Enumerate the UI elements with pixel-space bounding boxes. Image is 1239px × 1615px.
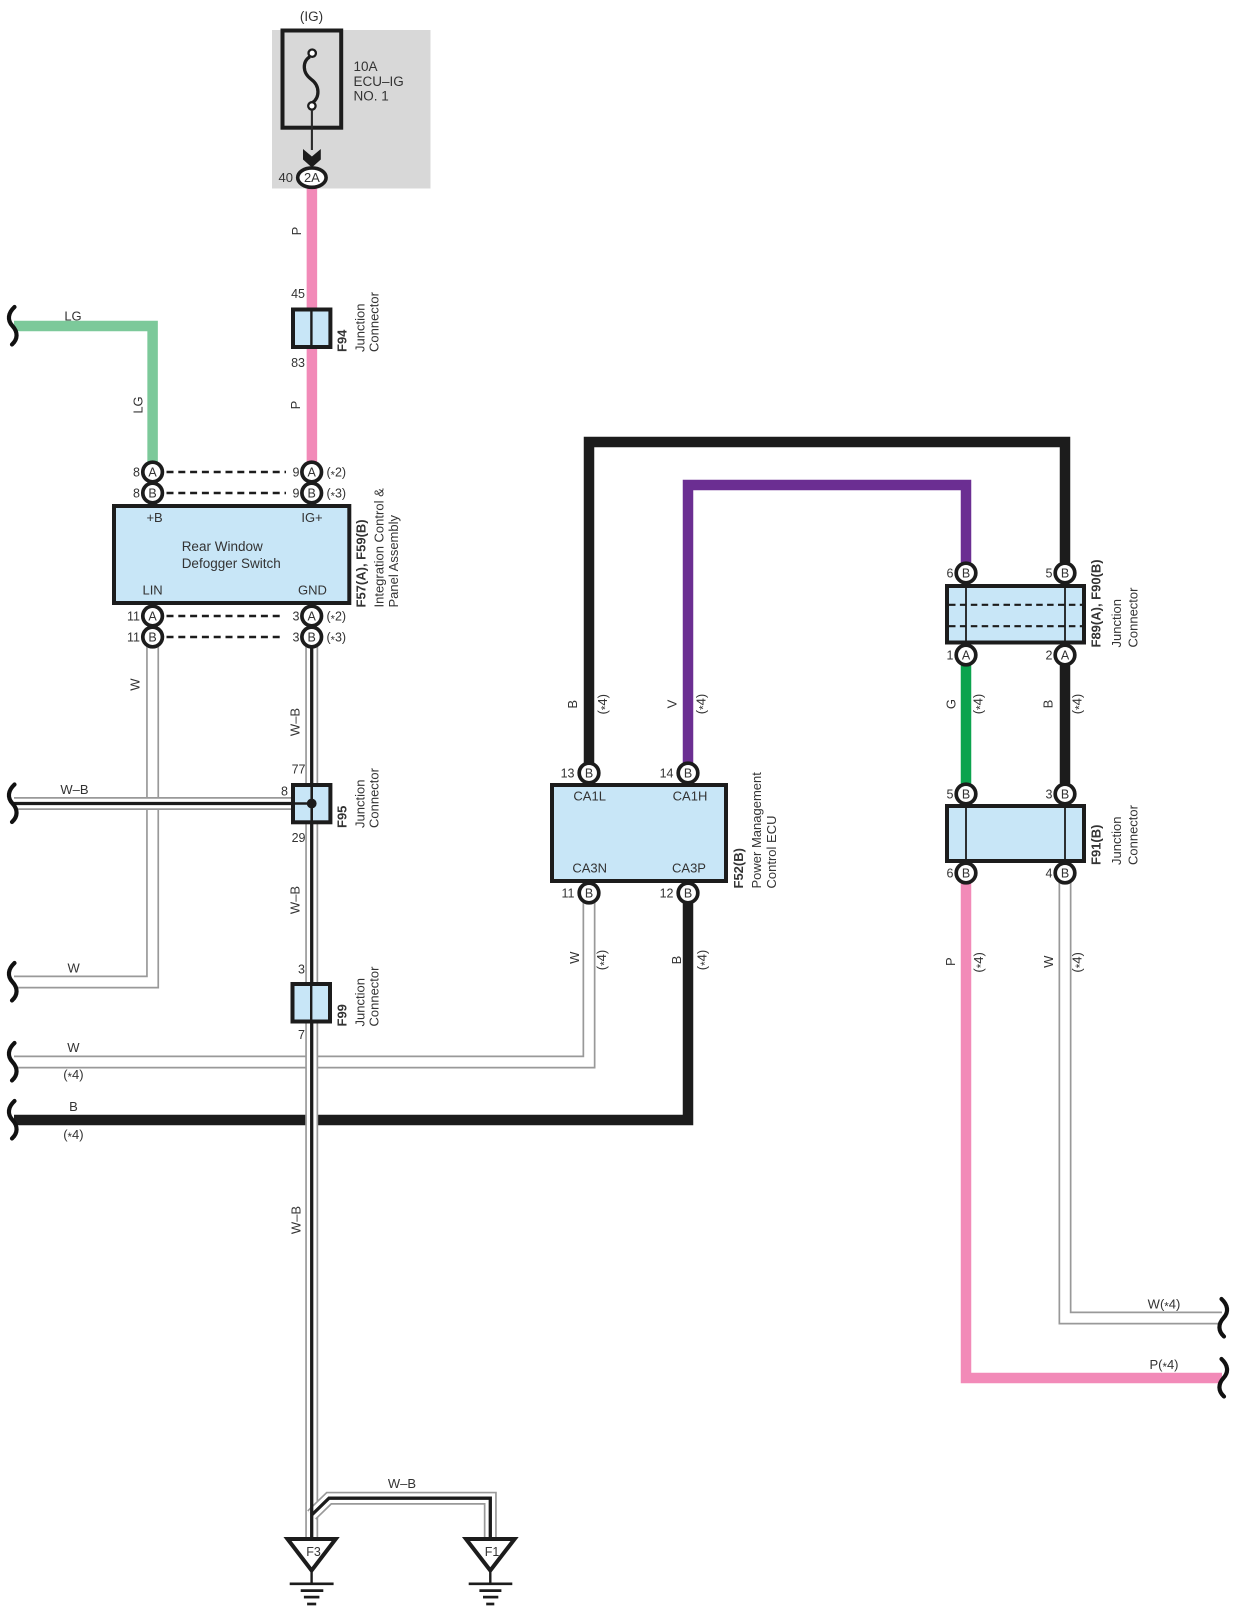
svg-text:A: A (308, 466, 317, 480)
svg-text:F52(B): F52(B) (731, 848, 746, 888)
svg-text:W–B: W–B (288, 886, 303, 914)
svg-text:6: 6 (947, 867, 954, 881)
break symbol LG wire left (9, 307, 17, 345)
pin 2(A) F89 (1055, 645, 1075, 665)
svg-text:B: B (1061, 788, 1069, 802)
svg-text:9: 9 (293, 487, 300, 501)
svg-text:11: 11 (127, 610, 140, 624)
svg-text:B: B (1061, 567, 1069, 581)
pin 12(B) ECU CA3P (678, 883, 698, 903)
svg-text:F1: F1 (485, 1545, 500, 1559)
svg-text:14: 14 (660, 767, 674, 781)
svg-text:Connector: Connector (367, 966, 382, 1027)
svg-text:+B: +B (146, 510, 162, 525)
pin 6(B) F89 (956, 563, 976, 583)
break symbol W-B wire left (9, 785, 17, 823)
pin 3(B) F91 (1055, 784, 1075, 804)
svg-text:Junction: Junction (353, 304, 368, 352)
svg-text:W–B: W–B (289, 1206, 304, 1234)
svg-text:(*4): (*4) (594, 950, 611, 970)
svg-text:W: W (128, 678, 143, 691)
arrow into terminal 2A (303, 149, 321, 168)
pin 13(B) ECU CA1L (579, 763, 599, 783)
svg-text:(*3): (*3) (327, 631, 347, 647)
svg-text:B: B (148, 487, 156, 501)
break symbol W(*4) wire right (1219, 1299, 1227, 1337)
svg-text:LIN: LIN (142, 583, 162, 598)
svg-text:40: 40 (279, 170, 293, 185)
pin 11(B) ECU CA3N (579, 883, 599, 903)
break symbol W wire left (9, 963, 17, 1001)
svg-text:B: B (585, 887, 593, 901)
svg-text:3: 3 (1046, 788, 1053, 802)
svg-text:Junction: Junction (353, 978, 368, 1026)
switch bottom pin pair dashed link row A (167, 615, 284, 618)
svg-text:1: 1 (947, 649, 954, 663)
svg-text:W(*4): W(*4) (1148, 1297, 1181, 1314)
pin 4(B) F91 (1055, 863, 1075, 883)
svg-text:Junction: Junction (353, 780, 368, 828)
svg-text:45: 45 (291, 287, 305, 301)
svg-text:6: 6 (947, 567, 954, 581)
wire W-B branch black stripe (312, 1498, 491, 1539)
svg-text:4: 4 (1046, 867, 1053, 881)
svg-text:Junction: Junction (1109, 817, 1124, 865)
svg-text:F3: F3 (306, 1545, 321, 1559)
wire P (pink) from F91 pin 6(B) down then right to break (966, 882, 1222, 1378)
svg-text:5: 5 (1046, 567, 1053, 581)
svg-text:(*4): (*4) (595, 694, 612, 714)
svg-text:W–B: W–B (60, 782, 88, 797)
svg-text:W: W (67, 961, 80, 976)
junction connector F89(A),F90(B) (947, 586, 1084, 643)
svg-text:(*4): (*4) (63, 1127, 83, 1144)
svg-text:F95: F95 (335, 806, 350, 828)
break symbol W(*4) wire left (9, 1043, 17, 1081)
ground F3 (288, 1539, 336, 1604)
svg-text:B: B (148, 631, 156, 645)
switch top pin pair dashed link row B (167, 492, 287, 495)
svg-text:P: P (289, 227, 304, 236)
pin 6(B) F91 (956, 863, 976, 883)
svg-text:10A: 10A (354, 59, 378, 74)
ground F1 (466, 1539, 515, 1604)
svg-text:(*3): (*3) (327, 487, 347, 503)
wire B loop from ECU pin 13(B) up and right to F89 pin 5(B) (589, 442, 1065, 764)
rotated wire color labels (128, 227, 1087, 1234)
svg-text:W: W (67, 1040, 80, 1055)
svg-text:29: 29 (292, 831, 306, 845)
junction connector F99 (293, 984, 331, 1022)
svg-text:B: B (69, 1099, 78, 1114)
svg-text:ECU–IG: ECU–IG (354, 74, 404, 89)
svg-text:(*4): (*4) (695, 950, 712, 970)
svg-text:CA1H: CA1H (673, 789, 708, 804)
svg-text:A: A (308, 610, 317, 624)
svg-text:2: 2 (1046, 649, 1053, 663)
pin 11(A) switch LIN (143, 606, 163, 626)
svg-text:(*4): (*4) (1070, 694, 1087, 714)
svg-text:F89(A), F90(B): F89(A), F90(B) (1089, 559, 1104, 647)
svg-text:(*4): (*4) (971, 952, 988, 972)
svg-text:8: 8 (133, 487, 140, 501)
junction connector F94 (293, 310, 330, 348)
switch bottom pin pair dashed link row B (167, 636, 284, 639)
pin 3(B) switch GND (302, 627, 322, 647)
svg-text:B: B (962, 867, 970, 881)
svg-text:8: 8 (133, 466, 140, 480)
wire W-B horizontal from left break to junction connector F95 (14, 797, 293, 810)
junction connector F91(B) (947, 806, 1084, 861)
svg-text:LG: LG (64, 309, 81, 324)
svg-text:A: A (148, 466, 157, 480)
pin 8(A) switch +B (143, 462, 163, 482)
svg-text:7: 7 (298, 1028, 305, 1042)
svg-text:9: 9 (293, 466, 300, 480)
svg-text:B: B (684, 767, 692, 781)
svg-text:Integration Control &: Integration Control & (372, 488, 387, 608)
svg-text:CA3P: CA3P (672, 861, 706, 876)
svg-text:(*4): (*4) (63, 1067, 83, 1084)
svg-text:A: A (148, 610, 157, 624)
svg-text:NO. 1: NO. 1 (354, 89, 389, 104)
svg-text:G: G (944, 699, 959, 709)
svg-text:V: V (665, 699, 680, 708)
svg-text:A: A (962, 649, 971, 663)
svg-text:B: B (1041, 700, 1056, 709)
wire W from F91 pin 4(B) down then right to break (1065, 882, 1222, 1318)
svg-text:B: B (308, 487, 316, 501)
pin 5(B) F89 (1055, 563, 1075, 583)
svg-text:13: 13 (561, 767, 575, 781)
wire B short from F89 pin 2(A) to F91 pin 3(B) (1060, 664, 1071, 785)
svg-text:8: 8 (281, 785, 288, 799)
svg-text:Connector: Connector (367, 767, 382, 828)
svg-text:77: 77 (292, 763, 306, 777)
svg-text:W: W (1041, 955, 1056, 968)
svg-text:P: P (943, 957, 958, 966)
svg-text:B: B (684, 887, 692, 901)
svg-text:IG+: IG+ (301, 510, 322, 525)
svg-text:(*2): (*2) (327, 610, 347, 626)
svg-text:Connector: Connector (1126, 804, 1141, 865)
svg-text:B: B (308, 631, 316, 645)
svg-text:11: 11 (562, 887, 575, 901)
svg-text:Junction: Junction (1109, 599, 1124, 647)
svg-text:3: 3 (293, 631, 300, 645)
svg-text:B: B (962, 788, 970, 802)
svg-text:B: B (585, 767, 593, 781)
svg-text:Connector: Connector (367, 291, 382, 352)
wire W from switch pin 11(B) down then left to break (14, 646, 153, 982)
wire G (green) from F89 pin 1(A) to F91 pin 5(B) (961, 664, 972, 785)
svg-text:3: 3 (293, 610, 300, 624)
svg-text:CA1L: CA1L (573, 789, 606, 804)
svg-text:Rear Window: Rear Window (182, 539, 263, 554)
switch top pin pair dashed link row A (167, 471, 287, 474)
svg-text:B: B (565, 700, 580, 709)
fuse block gray background (272, 30, 431, 189)
svg-text:(*4): (*4) (971, 694, 988, 714)
wire B from ECU pin 12(B) down then left to break (14, 902, 688, 1120)
svg-text:F57(A), F59(B): F57(A), F59(B) (354, 519, 369, 607)
svg-text:B: B (669, 956, 684, 965)
svg-text:5: 5 (947, 788, 954, 802)
terminal oval 2A (298, 168, 326, 187)
svg-text:(*4): (*4) (694, 694, 711, 714)
pin 9(B) switch IG+ (302, 483, 322, 503)
Rear Window Defogger Switch box F57(A),F59(B) (114, 506, 349, 603)
svg-text:F91(B): F91(B) (1089, 825, 1104, 865)
svg-text:W–B: W–B (288, 708, 303, 736)
svg-text:(*2): (*2) (327, 466, 347, 482)
svg-text:B: B (962, 567, 970, 581)
wire LG (light green) from left break to switch pin 8(A) (14, 326, 153, 463)
svg-text:2A: 2A (304, 170, 320, 185)
svg-text:(IG): (IG) (300, 9, 323, 24)
svg-text:Connector: Connector (1126, 587, 1141, 648)
wire W-B main black stripe (310, 646, 313, 1539)
pin 3(A) switch GND (302, 606, 322, 626)
svg-text:P: P (288, 401, 303, 410)
svg-text:A: A (1061, 649, 1070, 663)
svg-text:Defogger Switch: Defogger Switch (182, 556, 281, 571)
svg-text:Panel Assembly: Panel Assembly (386, 515, 401, 608)
pin 11(B) switch LIN (143, 627, 163, 647)
svg-text:Power Management: Power Management (749, 772, 764, 889)
wire W-B branch to ground F1 (312, 1498, 491, 1539)
pin 8(B) switch +B (143, 483, 163, 503)
break symbol B(*4) wire left (9, 1101, 17, 1139)
svg-text:12: 12 (660, 887, 674, 901)
wire P (pink) from fuse 2A down to switch pin 9(A), passes behind F94 (307, 186, 318, 463)
junction connector F95 (293, 785, 330, 822)
svg-text:3: 3 (298, 963, 305, 977)
svg-text:GND: GND (298, 583, 327, 598)
svg-text:83: 83 (291, 356, 305, 370)
svg-text:B: B (1061, 867, 1069, 881)
svg-text:LG: LG (131, 396, 146, 413)
rotated component designators (335, 291, 1141, 1026)
wire V (violet) from ECU pin 14(B) up and right to F89 pin 6(B) (688, 485, 966, 764)
wire W from ECU pin 11(B) down then left to break (14, 902, 589, 1062)
svg-text:(*4): (*4) (1070, 952, 1087, 972)
svg-text:Control ECU: Control ECU (764, 816, 779, 889)
pin 14(B) ECU CA1H (678, 763, 698, 783)
svg-text:11: 11 (127, 631, 140, 645)
break symbol P(*4) wire right (1219, 1359, 1227, 1397)
svg-text:W–B: W–B (388, 1476, 416, 1491)
svg-text:F94: F94 (335, 329, 350, 352)
svg-text:F99: F99 (335, 1004, 350, 1026)
Power Management Control ECU box F52(B) (552, 785, 726, 881)
pin 9(A) switch IG+ (302, 462, 322, 482)
pin 1(A) F89 (956, 645, 976, 665)
pin 5(B) F91 (956, 784, 976, 804)
wire W-B vertical main run from switch pin 3(B) down to ground F3 (305, 646, 318, 1539)
svg-text:CA3N: CA3N (572, 861, 607, 876)
fuse 10A ECU-IG NO.1 (283, 31, 342, 128)
svg-text:W: W (567, 951, 582, 964)
